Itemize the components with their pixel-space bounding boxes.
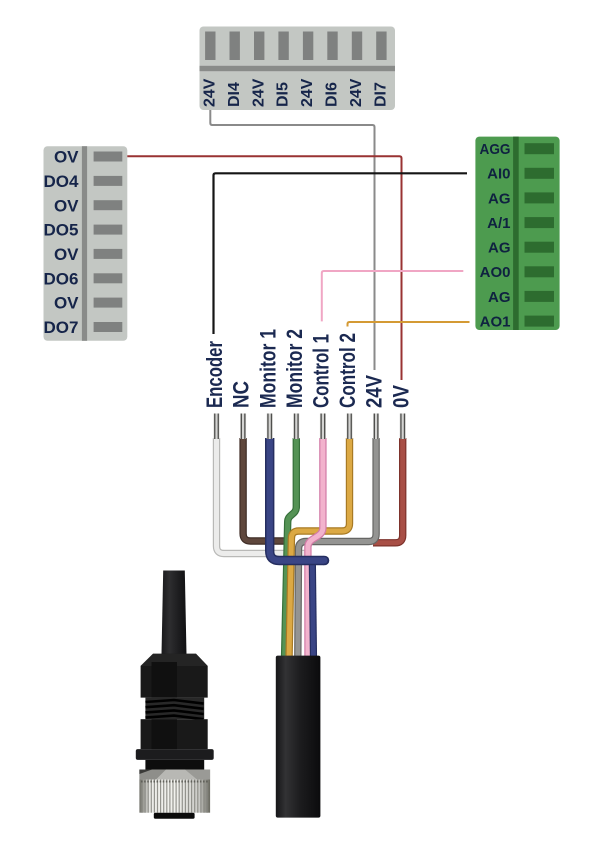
M12 connector hex gland upper bbox=[141, 654, 208, 698]
svg-text:DI4: DI4 bbox=[226, 82, 243, 107]
wire ferrule tips bbox=[214, 414, 406, 440]
terminal block TOP contact bar bbox=[200, 66, 396, 71]
svg-text:A/1: A/1 bbox=[487, 215, 510, 232]
svg-text:AO1: AO1 bbox=[480, 314, 511, 331]
net 0V (dark red thin wire from left block OV to 0V lead) bbox=[127, 156, 401, 380]
terminal block RIGHT divider bar bbox=[513, 137, 519, 330]
net AO0 (pink thin wire from Control 1 lead to green block AO0) bbox=[322, 271, 464, 321]
svg-text:AGG: AGG bbox=[480, 141, 511, 158]
svg-text:Monitor 2: Monitor 2 bbox=[282, 329, 307, 408]
terminal block RIGHT pins bbox=[525, 143, 555, 326]
svg-text:AG: AG bbox=[488, 190, 511, 207]
net AI0 (black thin wire from Encoder lead to green block AI0) bbox=[214, 173, 468, 334]
svg-text:OV: OV bbox=[54, 294, 79, 313]
net AO1 (gold thin wire from Control 2 lead to green block AO1) bbox=[348, 322, 470, 327]
svg-text:DO7: DO7 bbox=[44, 318, 79, 337]
wire white Encoder bbox=[217, 438, 311, 554]
terminal block LEFT divider bar bbox=[82, 146, 87, 341]
M12 connector cable stub bbox=[162, 571, 187, 655]
M12 connector knurled coupling nut chamfer bbox=[139, 770, 210, 780]
wire grey 24V bbox=[298, 438, 376, 660]
terminal block LEFT pins bbox=[94, 152, 123, 333]
svg-text:OV: OV bbox=[54, 196, 79, 215]
terminal block RIGHT labels AGG AI0 AG A/1 AG AO0 AG AO1 bbox=[480, 141, 511, 330]
svg-text:Control 1: Control 1 bbox=[309, 334, 334, 408]
svg-text:Control 2: Control 2 bbox=[335, 333, 360, 408]
svg-text:DI5: DI5 bbox=[275, 82, 292, 107]
svg-text:AG: AG bbox=[488, 240, 511, 257]
wire navy Monitor 1 bbox=[270, 438, 324, 561]
svg-text:DO6: DO6 bbox=[44, 269, 79, 288]
wire navy Monitor 1 vertical strand to cable bbox=[312, 559, 313, 660]
svg-text:24V: 24V bbox=[201, 78, 218, 107]
svg-text:24V: 24V bbox=[250, 78, 267, 107]
net 24V (grey thin wire from top block pin1 to 24V lead) bbox=[210, 110, 374, 370]
svg-text:AO0: AO0 bbox=[480, 264, 511, 281]
svg-text:OV: OV bbox=[54, 148, 79, 167]
wire green Monitor 2 bbox=[285, 438, 297, 660]
terminal block LEFT labels OV DO4 OV DO5 OV DO6 OV DO7 bbox=[44, 148, 80, 338]
wire pink Control 1 bbox=[308, 438, 323, 660]
svg-text:DI6: DI6 bbox=[324, 82, 341, 107]
terminal block TOP pins bbox=[205, 32, 387, 61]
M12 connector thread section bbox=[145, 698, 204, 720]
M12 connector mating face bbox=[154, 813, 195, 819]
terminal block TOP labels 24V DI4 24V DI5 24V DI6 24V DI7 bbox=[201, 78, 389, 107]
svg-text:AG: AG bbox=[488, 289, 511, 306]
svg-text:24V: 24V bbox=[299, 78, 316, 107]
svg-text:DO5: DO5 bbox=[44, 221, 79, 240]
M12 connector neck bbox=[145, 760, 204, 770]
M12 connector hex gland lower bbox=[141, 719, 208, 749]
svg-text:Encoder: Encoder bbox=[202, 341, 227, 408]
terminal block RIGHT (green analog block) body bbox=[475, 137, 559, 330]
terminal block LEFT (DO block) body bbox=[44, 146, 128, 341]
svg-text:AI0: AI0 bbox=[487, 166, 510, 183]
terminal block TOP (DI block) body bbox=[200, 27, 396, 111]
wire brown NC bbox=[243, 438, 292, 541]
M12 connector flange bbox=[136, 749, 214, 760]
M12 connector knurled coupling nut body bbox=[139, 780, 210, 813]
svg-text:OV: OV bbox=[54, 245, 79, 264]
wire gold Control 2 bbox=[289, 438, 350, 660]
svg-text:Monitor 1: Monitor 1 bbox=[255, 329, 280, 408]
svg-text:24V: 24V bbox=[362, 375, 387, 408]
svg-text:DI7: DI7 bbox=[373, 82, 390, 107]
M12 connector knurl tooth tops bbox=[141, 781, 209, 783]
svg-text:0V: 0V bbox=[388, 385, 413, 408]
wire dark red 0V bbox=[373, 438, 403, 543]
svg-text:24V: 24V bbox=[348, 78, 365, 107]
svg-text:DO4: DO4 bbox=[44, 172, 80, 191]
svg-text:NC: NC bbox=[229, 381, 254, 408]
